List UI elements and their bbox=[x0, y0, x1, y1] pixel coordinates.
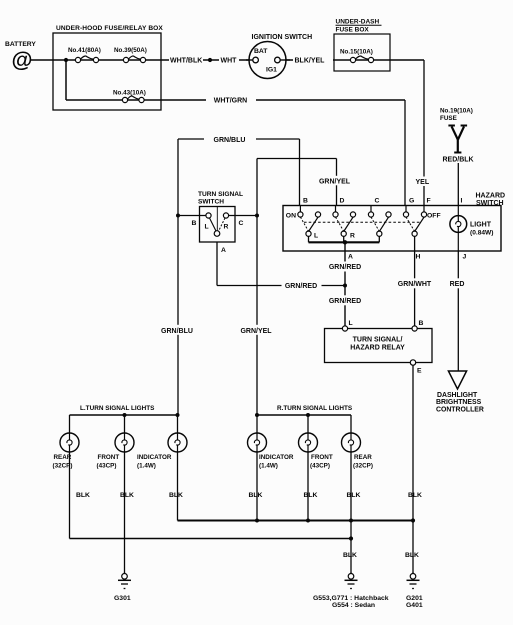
ignition switch bbox=[246, 34, 312, 79]
svg-text:GRN/RED: GRN/RED bbox=[329, 264, 361, 271]
lamp L front (43CP) bbox=[97, 433, 135, 470]
wire to L indicator lamp bbox=[177, 415, 179, 433]
wire GRN/RED horizontal bbox=[217, 285, 345, 287]
turn signal switch bbox=[198, 191, 243, 242]
svg-text:No.41(80A): No.41(80A) bbox=[68, 47, 101, 54]
svg-text:F: F bbox=[427, 198, 431, 205]
label WHT/GRN bbox=[206, 95, 256, 105]
svg-text:(43CP): (43CP) bbox=[97, 463, 117, 470]
wire YEL down to hazard F bbox=[414, 60, 435, 206]
hazard switch bbox=[283, 206, 501, 252]
wire left lamp bus bbox=[70, 414, 179, 416]
svg-text:G201: G201 bbox=[406, 595, 423, 602]
svg-text:GRN/BLU: GRN/BLU bbox=[214, 137, 246, 144]
svg-text:A: A bbox=[221, 247, 226, 254]
hazard indicator light bbox=[450, 206, 494, 251]
svg-text:BLK: BLK bbox=[347, 492, 361, 499]
label GRN/WHT bbox=[396, 278, 436, 288]
fuse No.41 (80A) bbox=[68, 47, 101, 63]
svg-text:BLK: BLK bbox=[169, 492, 183, 499]
wire feed down inside fuse box bbox=[65, 60, 67, 100]
svg-text:GRN/WHT: GRN/WHT bbox=[398, 281, 432, 288]
svg-text:(1.4W): (1.4W) bbox=[137, 463, 156, 470]
wire RED/BLK to hazard I bbox=[457, 163, 459, 206]
svg-text:SWITCH: SWITCH bbox=[476, 200, 504, 207]
label GRN/RED lower bbox=[325, 295, 365, 305]
wire right lamp bus bbox=[257, 414, 351, 416]
lamp L rear (32CP) bbox=[53, 433, 80, 470]
label GRN/YEL lower bbox=[239, 325, 275, 335]
wire relay E down bbox=[412, 365, 414, 578]
svg-text:No.19(10A): No.19(10A) bbox=[440, 108, 473, 115]
node junction C on GRN/YEL bbox=[255, 214, 259, 218]
svg-text:L.TURN SIGNAL LIGHTS: L.TURN SIGNAL LIGHTS bbox=[80, 405, 155, 412]
svg-text:BLK/YEL: BLK/YEL bbox=[295, 58, 326, 65]
fuse No.39 (50A) bbox=[114, 47, 147, 63]
wire GRN/BLU down to hazard B bbox=[299, 139, 301, 206]
svg-text:G553,G771 : Hatchback: G553,G771 : Hatchback bbox=[313, 595, 389, 602]
label GRN/RED mid bbox=[282, 280, 322, 290]
svg-text:L: L bbox=[205, 224, 209, 231]
svg-text:J: J bbox=[463, 254, 467, 261]
fuse No.43 (10A) bbox=[113, 90, 146, 103]
lamp R indicator (1.4W) bbox=[248, 433, 294, 470]
svg-text:GRN/BLU: GRN/BLU bbox=[161, 328, 193, 335]
wire R front BLK bbox=[307, 452, 309, 521]
node bus junction R front bbox=[306, 519, 310, 523]
svg-text:FUSE BOX: FUSE BOX bbox=[336, 27, 370, 34]
svg-text:BRIGHTNESS: BRIGHTNESS bbox=[436, 399, 482, 406]
svg-text:@: @ bbox=[12, 48, 33, 72]
dashlight brightness controller bbox=[436, 371, 484, 413]
svg-text:SWITCH: SWITCH bbox=[198, 198, 224, 205]
label WHT/BLK bbox=[169, 54, 203, 65]
svg-text:(0.84W): (0.84W) bbox=[470, 230, 493, 237]
svg-text:ON: ON bbox=[286, 213, 296, 220]
fuse No.15 (10A) bbox=[334, 49, 424, 63]
svg-text:G301: G301 bbox=[114, 595, 131, 602]
wire hazard H to relay B bbox=[414, 236, 416, 326]
wire to R rear lamp bbox=[350, 415, 352, 433]
svg-text:GRN/YEL: GRN/YEL bbox=[319, 178, 351, 185]
svg-text:(43CP): (43CP) bbox=[310, 463, 330, 470]
svg-text:No.43(10A): No.43(10A) bbox=[113, 90, 146, 97]
svg-text:OFF: OFF bbox=[427, 213, 441, 220]
svg-text:HAZARD: HAZARD bbox=[476, 193, 506, 200]
svg-text:REAR: REAR bbox=[354, 454, 372, 461]
wire WHT/GRN row bbox=[66, 99, 405, 101]
wire TSS terminal A bbox=[216, 242, 218, 286]
svg-text:B: B bbox=[192, 220, 197, 227]
label RED bbox=[447, 278, 468, 288]
node splice WHT/BLK-WHT bbox=[208, 58, 212, 62]
svg-text:YEL: YEL bbox=[416, 179, 430, 186]
svg-text:RED: RED bbox=[450, 281, 465, 288]
svg-text:RED/BLK: RED/BLK bbox=[443, 157, 474, 164]
svg-text:LIGHT: LIGHT bbox=[470, 222, 492, 229]
svg-text:TURN SIGNAL: TURN SIGNAL bbox=[198, 191, 243, 198]
label GRN/BLU lower bbox=[160, 325, 196, 335]
wire ground bus lower bbox=[70, 538, 352, 540]
ground G201/G401 bbox=[406, 572, 423, 609]
label HAZARD SWITCH bbox=[476, 193, 506, 207]
svg-text:A: A bbox=[348, 254, 353, 261]
svg-text:BLK: BLK bbox=[408, 492, 422, 499]
wire R rear BLK to ground bbox=[350, 452, 352, 578]
svg-text:GRN/RED: GRN/RED bbox=[329, 298, 361, 305]
svg-text:I: I bbox=[461, 198, 463, 205]
lamp R rear (32CP) bbox=[342, 433, 373, 470]
node junction GRN/RED bbox=[343, 284, 347, 288]
wire GRN/BLU left vertical bbox=[177, 139, 179, 415]
svg-text:BLK: BLK bbox=[249, 492, 263, 499]
svg-text:B: B bbox=[303, 198, 308, 205]
wire to L front lamp bbox=[124, 415, 126, 433]
svg-text:FRONT: FRONT bbox=[311, 454, 333, 461]
svg-text:L: L bbox=[314, 233, 318, 240]
battery bbox=[5, 41, 36, 72]
wire to R indicator lamp bbox=[256, 415, 258, 433]
svg-text:GRN/YEL: GRN/YEL bbox=[240, 328, 272, 335]
svg-text:IGNITION SWITCH: IGNITION SWITCH bbox=[252, 34, 313, 41]
svg-text:G401: G401 bbox=[406, 602, 423, 609]
svg-text:C: C bbox=[239, 220, 244, 227]
svg-text:B: B bbox=[419, 320, 424, 327]
label BLK/YEL bbox=[293, 54, 333, 65]
svg-text:BAT: BAT bbox=[254, 48, 268, 55]
ground G553/G554 bbox=[313, 572, 389, 609]
svg-text:WHT/GRN: WHT/GRN bbox=[214, 98, 247, 105]
wire L indicator BLK bbox=[177, 452, 179, 521]
svg-text:WHT: WHT bbox=[221, 58, 238, 65]
svg-text:FRONT: FRONT bbox=[98, 454, 120, 461]
svg-text:No.39(50A): No.39(50A) bbox=[114, 47, 147, 54]
svg-text:FUSE: FUSE bbox=[440, 115, 457, 122]
svg-text:BLK: BLK bbox=[405, 552, 419, 559]
wire TSS terminal C bbox=[229, 215, 257, 217]
node bus junction R rear bbox=[349, 519, 353, 523]
turn signal / hazard relay bbox=[325, 326, 433, 365]
wire L front BLK to ground bbox=[124, 452, 126, 574]
wire to R front lamp bbox=[307, 415, 309, 433]
svg-text:BATTERY: BATTERY bbox=[5, 41, 36, 48]
svg-text:UNDER-DASH: UNDER-DASH bbox=[336, 19, 380, 26]
wire BLK/YEL bbox=[285, 59, 334, 61]
wire ground bus upper bbox=[178, 520, 414, 522]
wire TSS terminal B bbox=[178, 215, 206, 217]
wire hazard A to relay L bbox=[344, 242, 346, 326]
svg-text:BLK: BLK bbox=[120, 492, 134, 499]
ground G301 bbox=[114, 572, 131, 602]
node junction left bus front bbox=[123, 413, 127, 417]
wire main feed row bbox=[66, 59, 253, 61]
node junction right bus front bbox=[306, 413, 310, 417]
svg-text:GRN/RED: GRN/RED bbox=[285, 283, 317, 290]
svg-text:UNDER-HOOD FUSE/RELAY BOX: UNDER-HOOD FUSE/RELAY BOX bbox=[56, 25, 163, 32]
svg-text:G554 : Sedan: G554 : Sedan bbox=[332, 602, 375, 609]
node bus junction relay E bbox=[411, 518, 415, 522]
wire GRN/YEL vertical bbox=[256, 159, 258, 416]
wire GRN/YEL row bbox=[257, 158, 337, 160]
wire GRN/YEL down to hazard D bbox=[316, 159, 356, 207]
wire R indicator BLK bbox=[256, 452, 258, 521]
svg-text:L: L bbox=[349, 320, 353, 327]
svg-text:(32CP): (32CP) bbox=[353, 463, 373, 470]
fuse No.19 (10A) bbox=[440, 108, 473, 153]
lamp L indicator (1.4W) bbox=[137, 433, 187, 470]
svg-text:G: G bbox=[409, 198, 414, 205]
svg-text:C: C bbox=[375, 198, 380, 205]
label GRN/BLU bbox=[204, 134, 256, 144]
node bus lower junction bbox=[349, 536, 353, 540]
svg-text:H: H bbox=[416, 254, 421, 261]
node junction left bus indicator bbox=[176, 413, 180, 417]
svg-text:DASHLIGHT: DASHLIGHT bbox=[437, 392, 478, 399]
svg-text:BLK: BLK bbox=[76, 492, 90, 499]
svg-text:WHT/BLK: WHT/BLK bbox=[170, 58, 202, 65]
svg-text:BLK: BLK bbox=[343, 552, 357, 559]
wire battery to under-hood box bbox=[31, 59, 66, 61]
svg-text:CONTROLLER: CONTROLLER bbox=[436, 406, 484, 413]
node bus junction R indicator bbox=[255, 519, 259, 523]
under-dash fuse box bbox=[334, 19, 390, 72]
svg-text:INDICATOR: INDICATOR bbox=[137, 454, 172, 461]
under-hood fuse/relay box bbox=[53, 25, 163, 110]
lamp R front (43CP) bbox=[299, 433, 333, 470]
wire L rear BLK bbox=[69, 452, 71, 539]
svg-text:No.15(10A): No.15(10A) bbox=[340, 49, 373, 56]
label GRN/RED upper bbox=[325, 262, 365, 272]
svg-text:E: E bbox=[417, 368, 422, 375]
svg-text:(1.4W): (1.4W) bbox=[259, 463, 278, 470]
label WHT bbox=[219, 54, 239, 65]
node junction right bus indicator bbox=[255, 413, 259, 417]
wire GRN/BLU row bbox=[178, 138, 300, 140]
svg-text:TURN SIGNAL/: TURN SIGNAL/ bbox=[353, 337, 403, 344]
wire hazard J to controller bbox=[457, 251, 459, 371]
svg-text:R.TURN SIGNAL LIGHTS: R.TURN SIGNAL LIGHTS bbox=[277, 405, 353, 412]
svg-text:R: R bbox=[350, 233, 355, 240]
node junction B on GRN/BLU bbox=[176, 214, 180, 218]
svg-text:BLK: BLK bbox=[304, 492, 318, 499]
svg-text:D: D bbox=[340, 198, 345, 205]
svg-text:INDICATOR: INDICATOR bbox=[259, 454, 294, 461]
svg-text:IG1: IG1 bbox=[266, 67, 277, 74]
svg-text:HAZARD RELAY: HAZARD RELAY bbox=[350, 344, 405, 351]
svg-text:R: R bbox=[224, 224, 229, 231]
node battery feed junction bbox=[64, 58, 68, 62]
wire WHT/GRN down to hazard G bbox=[404, 100, 406, 206]
wire to L rear lamp bbox=[69, 415, 71, 433]
